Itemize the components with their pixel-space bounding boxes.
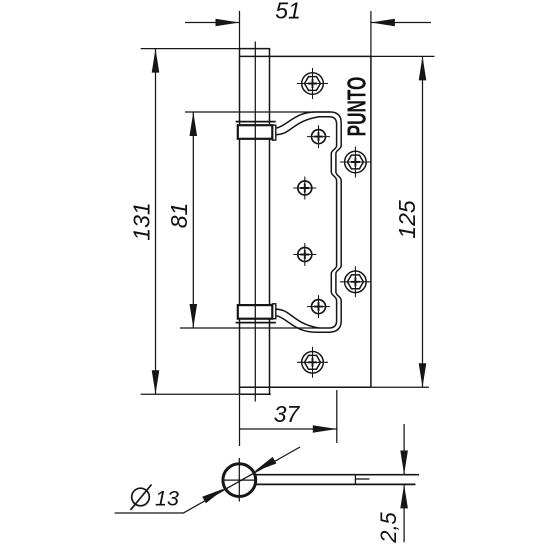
svg-text:2,5: 2,5 [376, 511, 401, 543]
svg-text:37: 37 [274, 401, 301, 427]
svg-text:125: 125 [394, 200, 420, 239]
svg-text:PUNTO: PUNTO [342, 77, 372, 137]
svg-text:131: 131 [129, 202, 155, 240]
svg-text:13: 13 [155, 486, 179, 510]
svg-text:81: 81 [166, 203, 192, 229]
svg-text:51: 51 [275, 0, 301, 24]
